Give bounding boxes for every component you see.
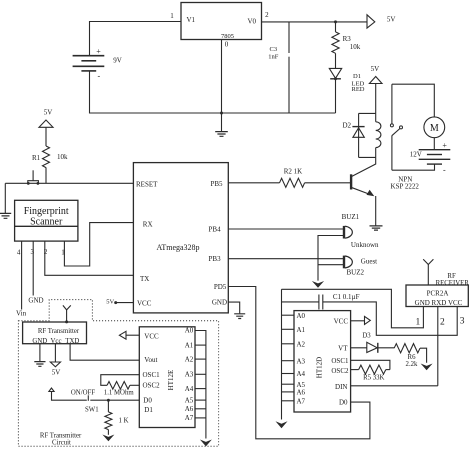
svg-text:OSC2: OSC2: [143, 382, 161, 390]
svg-text:Vin: Vin: [16, 310, 27, 318]
svg-text:OSC1: OSC1: [331, 357, 349, 365]
svg-text:Scanner: Scanner: [30, 217, 63, 228]
svg-text:C3: C3: [270, 46, 278, 53]
svg-text:RX: RX: [143, 221, 153, 229]
svg-text:10k: 10k: [350, 43, 361, 51]
svg-text:A2: A2: [185, 355, 194, 363]
svg-text:A7: A7: [185, 414, 194, 422]
svg-text:5V: 5V: [44, 109, 53, 117]
svg-text:RF Transmitter: RF Transmitter: [38, 328, 80, 335]
svg-text:Unknown: Unknown: [351, 241, 379, 249]
svg-text:Vout: Vout: [144, 356, 157, 364]
svg-text:PD5: PD5: [214, 283, 227, 291]
svg-text:DIN: DIN: [335, 383, 347, 391]
svg-text:Circuit: Circuit: [52, 440, 71, 447]
svg-text:7805: 7805: [221, 33, 234, 40]
svg-text:1: 1: [170, 12, 174, 20]
svg-text:2.2k: 2.2k: [406, 361, 418, 368]
svg-text:A6: A6: [297, 389, 306, 397]
svg-text:RF Transmitter: RF Transmitter: [40, 433, 82, 440]
svg-text:5V: 5V: [52, 369, 61, 377]
svg-text:PB3: PB3: [209, 255, 222, 263]
svg-text:HT12E: HT12E: [167, 370, 175, 391]
svg-text:HT12D: HT12D: [316, 357, 324, 378]
svg-text:SW1: SW1: [85, 406, 99, 413]
svg-text:5V: 5V: [371, 65, 380, 73]
svg-text:D0: D0: [143, 397, 152, 405]
svg-text:R2 1K: R2 1K: [284, 168, 302, 176]
svg-text:PB4: PB4: [209, 226, 222, 234]
svg-text:V1: V1: [187, 16, 196, 24]
svg-text:GND: GND: [212, 299, 227, 307]
svg-text:A4: A4: [297, 370, 306, 378]
svg-text:1.1 MOhm: 1.1 MOhm: [104, 390, 135, 397]
svg-text:-: -: [97, 72, 100, 81]
svg-text:M: M: [430, 123, 439, 134]
svg-text:R3: R3: [343, 35, 352, 43]
svg-text:D0: D0: [339, 399, 348, 407]
svg-text:10k: 10k: [57, 153, 68, 161]
svg-text:Fingerprint: Fingerprint: [24, 206, 69, 217]
svg-text:VT: VT: [338, 345, 348, 353]
svg-text:D1: D1: [144, 406, 153, 414]
svg-text:A0: A0: [185, 327, 194, 335]
svg-text:12V: 12V: [410, 151, 422, 159]
svg-text:A0: A0: [297, 312, 306, 320]
svg-text:1nF: 1nF: [268, 54, 279, 61]
svg-text:D1: D1: [353, 73, 361, 80]
svg-text:KSP 2222: KSP 2222: [391, 182, 420, 190]
svg-text:D2: D2: [343, 122, 352, 130]
svg-text:VCC: VCC: [334, 318, 349, 326]
svg-text:C1 0.1µF: C1 0.1µF: [333, 293, 360, 301]
svg-text:1: 1: [61, 249, 65, 257]
svg-text:D3: D3: [362, 333, 371, 340]
svg-text:A1: A1: [185, 341, 194, 349]
svg-text:4: 4: [17, 249, 21, 257]
svg-text:5V: 5V: [106, 298, 114, 305]
svg-text:GND: GND: [28, 297, 43, 305]
svg-text:1 K: 1 K: [119, 417, 129, 424]
svg-text:Guest: Guest: [361, 258, 377, 266]
svg-text:2: 2: [44, 248, 48, 256]
svg-text:VCC: VCC: [137, 299, 152, 307]
svg-text:R1: R1: [32, 154, 41, 162]
svg-text:5V: 5V: [387, 16, 396, 24]
svg-text:A5: A5: [185, 396, 194, 404]
svg-text:0: 0: [225, 41, 229, 49]
svg-text:+: +: [96, 47, 101, 56]
svg-text:PB5: PB5: [210, 180, 223, 188]
svg-text:A4: A4: [185, 385, 194, 393]
svg-text:3: 3: [31, 248, 35, 256]
svg-text:1: 1: [416, 318, 421, 328]
svg-text:GND RXD VCC: GND RXD VCC: [415, 299, 463, 307]
svg-text:+: +: [442, 141, 447, 150]
svg-text:A6: A6: [185, 405, 194, 413]
svg-text:ON/OFF: ON/OFF: [71, 390, 95, 397]
svg-text:VCC: VCC: [144, 333, 159, 341]
svg-text:RF: RF: [447, 273, 456, 280]
svg-text:ATmega328p: ATmega328p: [156, 243, 199, 252]
svg-text:PCR2A: PCR2A: [427, 290, 449, 298]
svg-text:R6: R6: [408, 354, 417, 361]
svg-text:GND: GND: [32, 338, 47, 345]
svg-text:OSC1: OSC1: [143, 371, 161, 379]
svg-text:9V: 9V: [113, 56, 122, 64]
svg-text:A3: A3: [185, 371, 194, 379]
svg-text:BUZ2: BUZ2: [347, 269, 365, 277]
svg-text:A2: A2: [297, 340, 306, 348]
svg-text:A1: A1: [297, 326, 306, 334]
svg-text:RESET: RESET: [136, 181, 158, 189]
svg-text:BUZ1: BUZ1: [342, 213, 360, 221]
svg-text:2: 2: [440, 318, 445, 328]
svg-text:A3: A3: [297, 357, 306, 365]
svg-text:RECEIVER: RECEIVER: [436, 280, 470, 287]
svg-text:OSC2: OSC2: [331, 367, 349, 375]
svg-text:RED: RED: [352, 86, 365, 93]
svg-text:A7: A7: [297, 397, 306, 405]
svg-text:Vcc: Vcc: [51, 338, 62, 345]
svg-text:TX: TX: [140, 275, 149, 283]
svg-text:-: -: [443, 166, 446, 175]
svg-text:3: 3: [460, 317, 465, 327]
svg-text:R5 33K: R5 33K: [363, 375, 384, 382]
svg-text:TXD: TXD: [65, 338, 79, 345]
svg-text:2: 2: [265, 11, 269, 19]
svg-text:V0: V0: [248, 18, 257, 26]
